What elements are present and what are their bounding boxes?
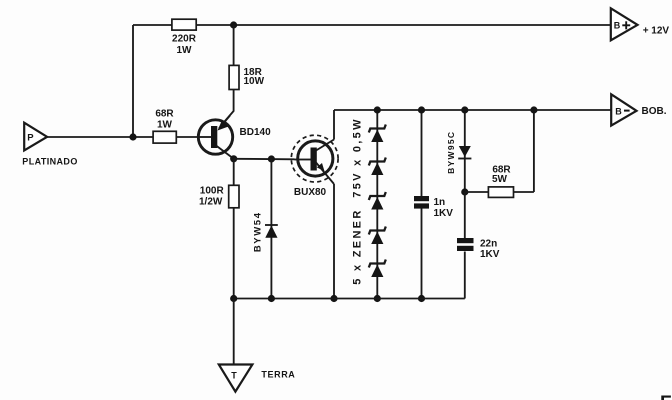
- svg-text:PLATINADO: PLATINADO: [22, 157, 77, 167]
- node junction zener / BOB rail: [374, 106, 381, 113]
- wire 1n capacitor branch upper: [421, 110, 423, 196]
- capacitor C1 1n 1KV: [414, 196, 453, 219]
- wire BOB rail: [334, 109, 611, 111]
- wire platinado to BD140 base: [47, 136, 198, 138]
- svg-text:1W: 1W: [177, 45, 193, 56]
- node junction BYW95C / BOB rail: [461, 106, 468, 113]
- wire BYW54 branch: [270, 159, 272, 299]
- svg-text:+ 12V: + 12V: [643, 25, 670, 36]
- zener diode Z5: [369, 260, 386, 278]
- wire collector row to BUX80 base: [234, 158, 295, 161]
- resistor R4 100R 1/2W: [199, 185, 239, 208]
- wire left vertical from rail to platinado node: [132, 25, 134, 137]
- node junction 1n / BOB rail: [418, 106, 425, 113]
- svg-text:BYW95C: BYW95C: [446, 131, 456, 174]
- wire 100R branch down to ground rail: [233, 159, 235, 299]
- resistor R1 220R 1W: [172, 19, 197, 56]
- svg-text:5W: 5W: [492, 174, 508, 185]
- resistor R3 68R 1W: [153, 109, 176, 143]
- connector P input: [24, 123, 47, 151]
- svg-text:T: T: [231, 371, 237, 381]
- node junction right vertical / BOB rail: [530, 106, 537, 113]
- svg-text:68R: 68R: [155, 109, 174, 120]
- zener diode Z3: [369, 192, 386, 210]
- connector B+ output: [611, 8, 638, 40]
- svg-text:B: B: [615, 107, 622, 117]
- diode D2 BYW95C: [446, 131, 472, 174]
- wire zener stack branch: [376, 110, 378, 299]
- wire 18R branch vertical: [219, 25, 234, 129]
- diode D1 BYW54: [252, 211, 278, 252]
- wire 68R 5W row: [465, 191, 534, 193]
- transistor Q1 BD140 (PNP): [198, 116, 233, 159]
- svg-text:10W: 10W: [244, 76, 265, 87]
- wire ground rail: [234, 298, 465, 300]
- resistor R5 68R 5W: [488, 165, 513, 198]
- svg-text:BYW54: BYW54: [252, 211, 263, 252]
- node junction BYW54 / ground rail: [268, 295, 275, 302]
- ground TERRA connector: [219, 365, 253, 392]
- node junction BYW95C / 68R / 22n: [461, 188, 468, 195]
- svg-text:1W: 1W: [157, 119, 173, 130]
- wire BUX80 collector up to BOB rail: [333, 110, 335, 140]
- resistor R2 18R 10W: [229, 65, 265, 89]
- svg-text:220R: 220R: [172, 34, 197, 45]
- svg-text:TERRA: TERRA: [261, 370, 295, 380]
- svg-text:22n: 22n: [480, 238, 497, 249]
- node junction emitter / ground rail: [330, 295, 337, 302]
- wire 22n capacitor branch lower: [464, 252, 466, 299]
- node junction 100R / ground rail: [230, 295, 237, 302]
- svg-text:P: P: [27, 133, 34, 144]
- wire right vertical to BOB rail: [533, 110, 535, 192]
- node junction zener / ground rail: [374, 295, 381, 302]
- node junction BD140 collector: [230, 155, 237, 162]
- transistor Q2 BUX80 (NPN, dashed outline): [291, 135, 338, 184]
- svg-text:BD140: BD140: [240, 127, 272, 138]
- wire terra branch: [233, 299, 235, 365]
- svg-text:1KV: 1KV: [434, 208, 454, 219]
- capacitor C2 22n 1KV: [457, 238, 500, 260]
- zener diode Z1: [369, 125, 386, 143]
- svg-text:BUX80: BUX80: [294, 187, 327, 198]
- node junction 1n / ground rail: [418, 295, 425, 302]
- connector B output to BOB: [611, 94, 636, 125]
- svg-text:1/2W: 1/2W: [199, 197, 223, 208]
- svg-text:BOB.: BOB.: [642, 106, 667, 117]
- wire BUX80 emitter down to ground rail: [333, 184, 335, 299]
- svg-text:1n: 1n: [434, 197, 446, 208]
- svg-text:100R: 100R: [200, 186, 225, 197]
- svg-text:B: B: [614, 21, 621, 31]
- zener diode Z2: [369, 158, 386, 176]
- zener diode Z4: [369, 227, 386, 245]
- wire BYW95C branch: [464, 110, 466, 192]
- wire 1n capacitor branch lower: [421, 209, 423, 299]
- svg-text:F: F: [660, 393, 672, 400]
- node junction platinado / left vertical: [129, 133, 136, 140]
- svg-text:1KV: 1KV: [480, 249, 500, 260]
- svg-text:5 x ZENER 75V x 0,5W: 5 x ZENER 75V x 0,5W: [351, 117, 363, 285]
- node junction BYW54 branch: [268, 155, 275, 162]
- node junction top rail / 18R: [230, 21, 237, 28]
- wire top +12V rail: [133, 24, 611, 26]
- wire 22n capacitor branch upper: [464, 192, 466, 238]
